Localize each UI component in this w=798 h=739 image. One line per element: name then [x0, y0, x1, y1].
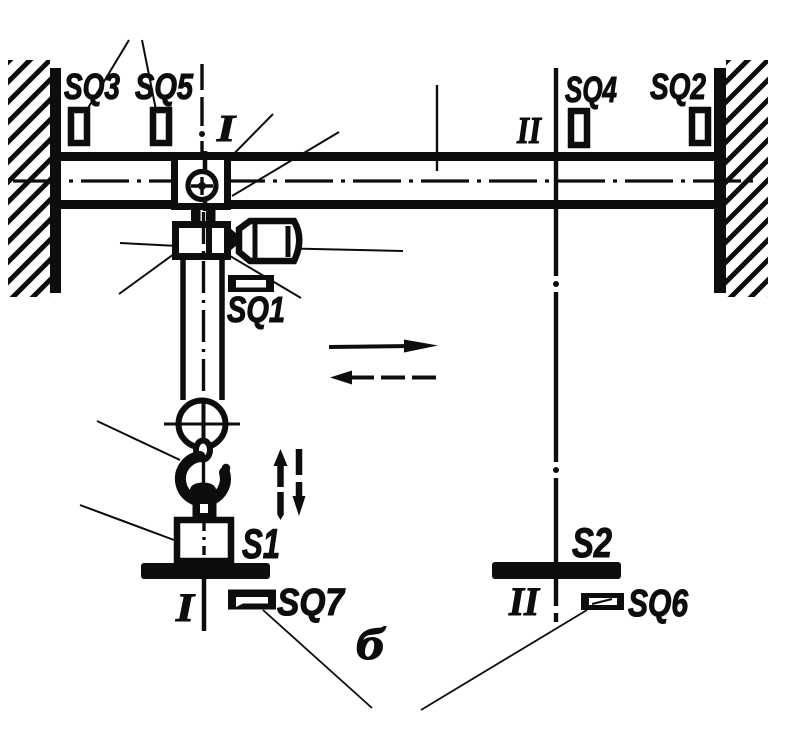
leader to hook — [97, 421, 180, 460]
node I axis dashed top — [200, 64, 203, 153]
rope axis dashed — [202, 212, 205, 580]
wall hatching left — [0, 0, 75, 400]
travel arrow solid right — [329, 346, 414, 347]
leader to beam — [436, 85, 438, 171]
left wall — [50, 68, 61, 293]
leader to motor — [269, 248, 403, 251]
load box S1 — [177, 520, 231, 561]
svg-text:SQ2: SQ2 — [650, 66, 706, 107]
svg-text:II: II — [508, 579, 540, 624]
leader to load — [80, 505, 174, 540]
svg-text:SQ7: SQ7 — [277, 582, 346, 624]
right wall — [714, 68, 726, 293]
platform S2 — [492, 562, 621, 579]
svg-text:I: I — [175, 585, 196, 630]
wheel center marks — [191, 184, 213, 188]
leader from SQ7 — [263, 610, 372, 708]
leader to gearbox — [120, 243, 178, 246]
leader to trolley — [232, 132, 339, 196]
hook eye — [196, 441, 210, 460]
hook tip — [225, 468, 227, 474]
svg-text:I: I — [216, 108, 237, 150]
trolley axis — [203, 151, 208, 211]
leader from hoist down-right — [225, 253, 301, 298]
hoist divider — [206, 221, 212, 260]
svg-text:SQ1: SQ1 — [227, 289, 285, 330]
leader to SQ5 — [142, 40, 156, 110]
hoist arrow dashed down — [296, 449, 303, 475]
trolley — [175, 157, 228, 207]
load axis — [202, 522, 205, 560]
hoist arrow solid up — [274, 449, 288, 466]
limit switch SQ4 — [571, 111, 587, 145]
leader from hoist down-left — [119, 254, 174, 294]
platform S1 — [141, 563, 270, 579]
trolley wheel — [188, 172, 216, 200]
svg-text:S2: S2 — [572, 519, 612, 566]
pulley block — [179, 401, 226, 448]
beam centerline — [13, 179, 760, 182]
leader from SQ6 — [421, 610, 587, 710]
limit switch SQ5 — [153, 110, 169, 143]
motor coupling — [230, 228, 243, 251]
limit switch SQ3 — [71, 110, 87, 143]
svg-text:SQ6: SQ6 — [628, 583, 689, 625]
motor M — [239, 221, 299, 261]
svg-text:SQ3: SQ3 — [64, 66, 120, 107]
svg-text:SQ4: SQ4 — [565, 69, 617, 110]
travel arrow dashed left — [330, 371, 352, 385]
svg-text:SQ5: SQ5 — [135, 66, 194, 107]
limit switch SQ6 — [581, 593, 624, 610]
beam top rail — [55, 152, 726, 161]
load neck — [193, 501, 217, 518]
limit switch SQ1 — [228, 275, 274, 292]
beam bottom rail — [55, 200, 726, 209]
hoist body — [176, 225, 228, 257]
hoist ropes — [180, 260, 186, 400]
hook inner blob — [190, 483, 216, 497]
leader to SQ3 — [88, 40, 129, 108]
leader to trolley wheel — [212, 114, 273, 176]
axis below platform I — [202, 579, 207, 631]
limit switch SQ2 — [692, 110, 708, 143]
svg-text:б: б — [356, 618, 386, 669]
hook — [180, 457, 225, 502]
svg-text:II: II — [516, 110, 542, 152]
wall hatching right — [688, 0, 798, 400]
node II axis line — [554, 68, 558, 622]
svg-text:S1: S1 — [242, 520, 280, 567]
trolley-hoist connector — [191, 209, 201, 222]
limit switch SQ7 — [228, 590, 276, 610]
